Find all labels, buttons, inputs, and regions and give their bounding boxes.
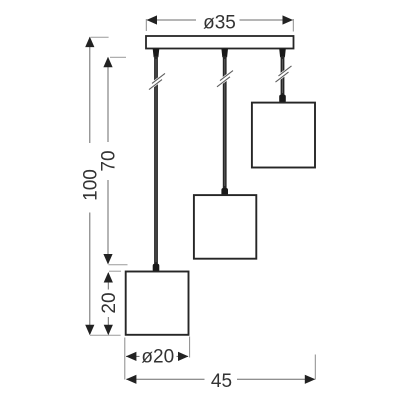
ceiling canopy plate [146, 36, 294, 49]
lamp shade 3 (right, highest) [252, 103, 315, 168]
dimension 100 arrow down [85, 325, 94, 336]
shade holder nub 3 (top of right shade) [279, 95, 286, 103]
cord 1 (left, longest) [154, 56, 158, 265]
dimension ø35 line right segment [240, 19, 293, 21]
dimension 70 arrow down [103, 254, 112, 265]
cord grip nub 2 under plate [221, 49, 228, 57]
dimension 45 arrow right [305, 375, 316, 384]
cord 2 break symbol [217, 71, 233, 87]
svg-text:20: 20 [99, 292, 120, 313]
shade holder nub 1 (top of left shade) [153, 264, 160, 272]
dimension 70 tick at cord top [110, 56, 126, 58]
cord grip nub 3 under plate [279, 49, 286, 57]
cord grip nub 1 under plate [153, 49, 160, 57]
dimension 70 line lower segment [107, 180, 109, 264]
cord 3 break symbol [276, 66, 292, 82]
lamp shade 1 (left, lowest) [126, 272, 189, 335]
dimension ø20 extension line left [124, 338, 126, 380]
cord 1 break symbol [149, 73, 165, 89]
dimension 70 arrow up [103, 57, 112, 68]
cord 2 (middle) [223, 56, 227, 190]
dimension ø20 arrow right [178, 352, 189, 361]
dimension 20 tick at shade top [109, 270, 121, 272]
svg-text:100: 100 [80, 169, 101, 201]
dimension 20 tick at shade bottom [90, 334, 121, 336]
dimension 45 line right segment [237, 378, 315, 380]
dimension 45 arrow left [126, 375, 136, 384]
dimension ø35 extension line right [292, 19, 294, 32]
dimension ø20 line right segment [177, 355, 189, 357]
shade holder nub 2 (top of middle shade) [221, 188, 228, 196]
dimension 45 extension line right [314, 355, 316, 380]
dimension 100 line lower segment [89, 213, 91, 335]
dimension 20 arrow up [104, 272, 113, 283]
dimension ø35 arrow right [283, 15, 294, 24]
dimension 20 line upper segment [107, 273, 109, 290]
lamp shade 2 (middle) [194, 195, 256, 259]
dimension ø20 extension line right [189, 337, 191, 358]
svg-text:ø20: ø20 [141, 347, 174, 368]
svg-text:70: 70 [99, 150, 120, 171]
dimension ø35 extension line left [145, 19, 147, 31]
dimension ø20 arrow left [126, 352, 136, 361]
dimension 45 line left segment [127, 378, 205, 380]
dimension ø35 arrow left [147, 15, 158, 24]
dimension ø35 line left segment [147, 19, 196, 21]
dimension 100 tick at plate top [91, 36, 109, 38]
dimension 100 line upper segment [89, 38, 91, 144]
dimension 20 arrow down [104, 325, 113, 336]
cord 3 (right, shortest) [281, 56, 285, 96]
dimension 70 line upper segment [107, 58, 109, 143]
dimension 100 arrow up [85, 37, 94, 48]
dimension 70 tick at cord bottom [109, 264, 128, 266]
svg-text:45: 45 [211, 371, 232, 392]
dimension 20 line lower segment [107, 317, 109, 334]
dimension ø20 line left segment [126, 355, 140, 357]
svg-text:ø35: ø35 [203, 12, 236, 33]
